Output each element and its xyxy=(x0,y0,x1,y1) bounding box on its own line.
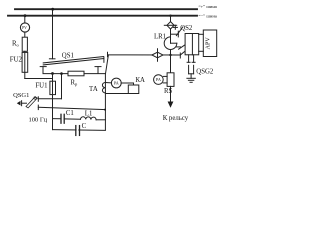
svg-text:“−” шина: “−” шина xyxy=(199,14,217,19)
svg-text:“+” шина: “+” шина xyxy=(199,4,217,9)
svg-text:QS1: QS1 xyxy=(62,53,74,60)
capacitor C xyxy=(75,126,77,136)
main vertical wire xyxy=(106,55,109,74)
svg-text:PA: PA xyxy=(114,81,119,86)
resistor Rp xyxy=(68,71,84,76)
wire: QS1 wire down to QSG1 upper rail xyxy=(61,74,63,99)
svg-text:К рельсу: К рельсу xyxy=(163,115,189,122)
svg-text:LR1: LR1 xyxy=(154,34,166,41)
wire: FU2 branch to FU1 vertical xyxy=(25,78,53,80)
svg-text:C: C xyxy=(82,123,87,130)
branch to QS2 upper xyxy=(171,33,179,35)
terminal tick of line start xyxy=(107,52,109,57)
box APV xyxy=(203,30,216,57)
legs to QSG2 xyxy=(188,55,190,63)
wire TA to PA1 xyxy=(105,82,111,84)
QS1 left fixed contact xyxy=(42,67,44,74)
QS1 blades xyxy=(43,59,103,65)
switch QS2 pole 2 xyxy=(176,46,180,48)
fuse FU2 xyxy=(22,52,28,72)
capacitor C1 xyxy=(60,114,62,123)
plug connector on line xyxy=(152,52,163,58)
svg-text:PV: PV xyxy=(22,26,27,30)
svg-text:КА: КА xyxy=(136,77,146,84)
QSG1 lower rail xyxy=(38,107,105,109)
QSG1 upper rail xyxy=(38,98,61,100)
wire PV to R xyxy=(24,32,26,37)
QSG1 socket xyxy=(17,101,21,106)
wire through fuse FU2 xyxy=(24,51,26,78)
relay KA xyxy=(128,85,139,94)
inductor L1 xyxy=(81,117,97,120)
node FU1 branch xyxy=(51,72,54,75)
plug connector vertical xyxy=(167,22,174,29)
node junction LR1/line xyxy=(169,54,171,56)
wire minus bus down xyxy=(170,16,172,22)
QS1 lower wire xyxy=(43,73,105,75)
QS1 right fixed contact xyxy=(97,67,99,74)
svg-text:QSG1: QSG1 xyxy=(13,92,29,99)
voltmeter PV xyxy=(20,23,29,32)
svg-text:QSG2: QSG2 xyxy=(196,68,214,75)
ground xyxy=(187,77,195,79)
svg-text:FU2: FU2 xyxy=(10,57,23,64)
svg-text:Rо: Rо xyxy=(12,41,20,48)
leads PA2 xyxy=(163,75,167,77)
reactor LR1 xyxy=(164,37,177,50)
wire KA loop bottom xyxy=(105,93,128,95)
switch QS2 pole 1 xyxy=(174,25,176,29)
node on minus bus xyxy=(24,14,27,17)
shunt RS xyxy=(167,73,174,87)
bus minus xyxy=(8,15,197,17)
QS1 blade end tick xyxy=(103,57,105,62)
svg-text:L1: L1 xyxy=(85,110,93,117)
svg-text:C1: C1 xyxy=(66,110,74,117)
node on minus bus for LR1 xyxy=(169,15,171,17)
svg-text:Rр: Rр xyxy=(71,80,79,87)
wires box to APV xyxy=(199,33,204,35)
node on plus bus xyxy=(51,8,54,11)
wire down to RS xyxy=(170,55,172,73)
wire PA1 to KA xyxy=(121,82,133,84)
wire RS to rail arrow xyxy=(170,86,172,101)
switch QSG2 xyxy=(188,65,190,74)
ammeter PA1 xyxy=(111,78,121,88)
contact bar above QS1 blade xyxy=(49,58,55,60)
ammeter PA2 xyxy=(154,75,164,85)
svg-text:ТА: ТА xyxy=(89,86,98,93)
svg-text:QS2: QS2 xyxy=(180,25,193,32)
wire through FU1 down to LC loop xyxy=(52,74,54,130)
svg-text:RS: RS xyxy=(164,88,173,95)
LC loop bottom wire xyxy=(53,129,106,132)
svg-text:APV: APV xyxy=(206,37,212,50)
arrow to rail xyxy=(168,102,174,108)
fuse FU1 xyxy=(50,81,56,94)
svg-text:FU1: FU1 xyxy=(35,83,47,90)
wire: drop from plus bus to QS1 xyxy=(52,9,54,59)
resistor Ro xyxy=(22,37,27,51)
svg-text:PA: PA xyxy=(156,77,161,82)
bus plus xyxy=(15,8,197,10)
wire of C1-L1 branch xyxy=(53,118,62,120)
wire: minus bus to PV xyxy=(24,16,26,23)
QSG1 blade xyxy=(26,97,37,108)
line to LR1 and QS2 xyxy=(108,54,180,56)
svg-text:100 Гц: 100 Гц xyxy=(29,117,48,124)
transformer TA secondary xyxy=(102,83,105,93)
device box xyxy=(185,34,199,55)
